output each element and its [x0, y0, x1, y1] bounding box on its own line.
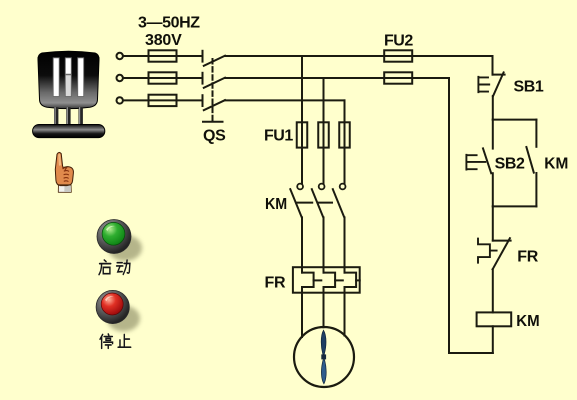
svg-text:380V: 380V	[145, 32, 182, 49]
svg-text:KM: KM	[516, 313, 539, 330]
svg-text:KM: KM	[265, 196, 287, 213]
svg-text:3—50HZ: 3—50HZ	[138, 15, 200, 32]
svg-text:SB2: SB2	[495, 156, 525, 173]
svg-text:FR: FR	[517, 248, 538, 265]
svg-text:QS: QS	[203, 128, 226, 145]
svg-text:FU2: FU2	[384, 33, 413, 50]
svg-text:FU1: FU1	[264, 128, 293, 145]
svg-text:SB1: SB1	[514, 78, 544, 95]
svg-text:FR: FR	[265, 275, 286, 292]
svg-text:KM: KM	[544, 156, 568, 173]
